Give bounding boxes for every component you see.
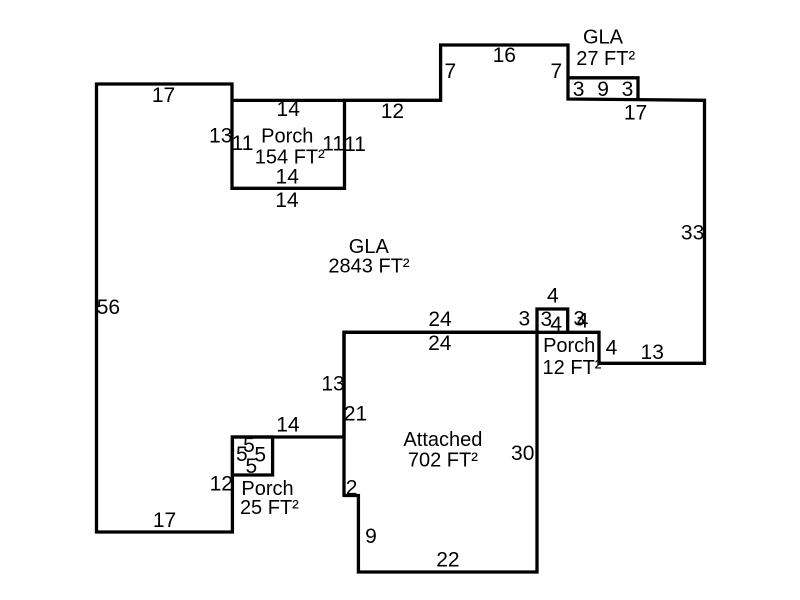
svg-text:Attached: Attached: [403, 429, 482, 451]
svg-text:24: 24: [428, 332, 452, 355]
svg-text:12: 12: [381, 100, 404, 123]
svg-text:4: 4: [547, 285, 559, 308]
svg-text:12: 12: [210, 473, 233, 496]
svg-text:33: 33: [681, 221, 704, 244]
svg-text:30: 30: [511, 442, 534, 465]
svg-text:25 FT²: 25 FT²: [240, 497, 299, 519]
wall: GLA 27 bump-out box: [568, 78, 638, 100]
svg-text:GLA: GLA: [583, 27, 624, 49]
svg-text:14: 14: [276, 166, 300, 189]
wall: GLA main outline: [97, 45, 705, 532]
svg-text:14: 14: [276, 414, 300, 437]
svg-text:13: 13: [209, 125, 232, 148]
svg-text:2843 FT²: 2843 FT²: [328, 255, 409, 277]
svg-text:16: 16: [493, 44, 516, 67]
svg-text:7: 7: [444, 60, 456, 83]
svg-text:4: 4: [606, 336, 618, 359]
svg-text:2: 2: [346, 477, 358, 500]
svg-text:Porch: Porch: [261, 125, 313, 147]
svg-text:14: 14: [277, 98, 301, 121]
svg-text:27 FT²: 27 FT²: [576, 48, 635, 70]
svg-text:3: 3: [518, 308, 530, 331]
wall: porch 12 box: [537, 309, 568, 332]
svg-text:17: 17: [153, 509, 176, 532]
svg-text:4: 4: [577, 309, 589, 332]
wall: attached garage outline: [344, 332, 537, 572]
svg-text:5: 5: [246, 455, 258, 478]
svg-text:9: 9: [597, 78, 609, 101]
svg-text:24: 24: [428, 308, 452, 331]
svg-text:14: 14: [275, 189, 299, 212]
svg-text:11: 11: [322, 132, 344, 155]
svg-text:3: 3: [622, 78, 634, 101]
svg-text:17: 17: [624, 101, 647, 124]
svg-text:11: 11: [344, 133, 366, 156]
svg-text:4: 4: [550, 313, 562, 336]
svg-text:13: 13: [321, 372, 344, 395]
svg-text:21: 21: [344, 403, 367, 426]
svg-text:Porch: Porch: [543, 335, 595, 357]
svg-text:12 FT²: 12 FT²: [543, 357, 602, 379]
svg-text:7: 7: [551, 60, 563, 83]
svg-text:22: 22: [436, 548, 459, 571]
svg-text:3: 3: [573, 78, 585, 101]
wall: porch 154 top edge: [232, 99, 345, 102]
svg-text:11: 11: [232, 132, 254, 155]
wall: porch 25 box: [232, 437, 272, 475]
svg-text:702 FT²: 702 FT²: [408, 450, 478, 472]
svg-text:9: 9: [365, 525, 377, 548]
svg-text:17: 17: [152, 84, 175, 107]
svg-text:13: 13: [641, 341, 664, 364]
svg-text:56: 56: [97, 296, 120, 319]
